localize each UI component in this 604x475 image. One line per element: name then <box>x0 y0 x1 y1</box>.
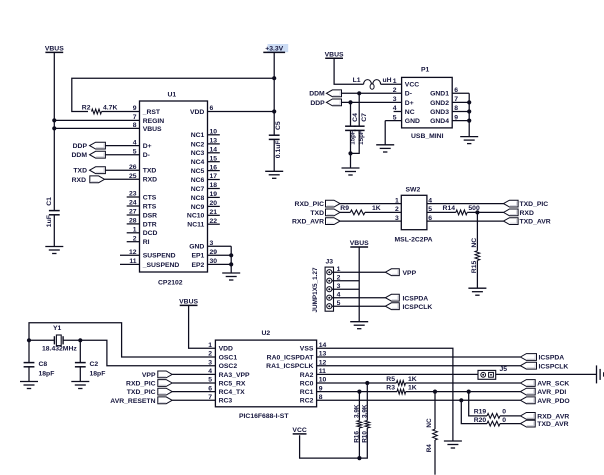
svg-text:25: 25 <box>129 173 137 180</box>
svg-text:TXD: TXD <box>310 210 324 217</box>
port arrow AVR_PDO <box>520 397 535 404</box>
resistor R3 1K <box>397 389 406 394</box>
power flag +3.3V (highlighted) <box>268 44 289 52</box>
junction RC1 / R4 tap <box>433 390 437 394</box>
wire R5 to AVR_SCK <box>406 382 521 384</box>
wire J3 pin1 to VPP <box>332 271 386 273</box>
junction +3.3V / R2 line <box>272 76 276 80</box>
ground below C4/C7 <box>342 168 360 175</box>
svg-text:11: 11 <box>129 258 136 265</box>
wire +3.3V rail down to C5 and ground <box>273 52 275 135</box>
svg-text:18pF: 18pF <box>90 370 106 377</box>
junction D- / C7 tap <box>357 91 361 95</box>
svg-text:26: 26 <box>129 164 137 171</box>
svg-text:DDM: DDM <box>309 91 325 98</box>
svg-text:NC: NC <box>471 238 478 248</box>
port arrow ICSPDA (right) <box>520 354 536 361</box>
svg-text:21: 21 <box>210 209 218 216</box>
svg-text:VSS: VSS <box>300 346 314 353</box>
wire C4/C7 commons to ground <box>350 130 352 168</box>
svg-text:7: 7 <box>208 394 212 401</box>
svg-text:NC10: NC10 <box>187 213 205 220</box>
svg-text:4: 4 <box>208 368 212 375</box>
svg-text:RXD_AVR: RXD_AVR <box>292 219 324 226</box>
svg-text:DDM: DDM <box>72 152 88 159</box>
IC U2 PIC16F688-I-ST body <box>215 340 316 407</box>
svg-text:1: 1 <box>393 78 397 85</box>
junction R16 bottom <box>357 456 361 460</box>
capacitor C1 1uF <box>49 211 60 215</box>
svg-text:U2: U2 <box>262 330 271 337</box>
svg-text:ICSPDA: ICSPDA <box>403 295 429 302</box>
svg-text:R9: R9 <box>340 205 349 212</box>
wire U2 RC2 pin 8 to AVR_PDO <box>317 399 521 401</box>
svg-text:AVR_PDO: AVR_PDO <box>537 398 569 405</box>
port arrow TXD_PIC <box>504 200 519 207</box>
svg-text:0: 0 <box>502 417 506 424</box>
svg-text:GND: GND <box>405 118 420 125</box>
wire VBUS rail down to C1 <box>53 52 55 210</box>
ground below P1 pin 5 <box>376 145 394 152</box>
svg-text:D+: D+ <box>405 100 414 107</box>
svg-text:3: 3 <box>393 96 397 103</box>
svg-text:VBUS: VBUS <box>143 126 162 133</box>
svg-text:C7: C7 <box>361 113 368 122</box>
connector P1 USB_MINI body <box>402 77 453 128</box>
svg-text:ICSPCLK: ICSPCLK <box>403 304 433 311</box>
svg-text:NC8: NC8 <box>191 195 205 202</box>
port arrow ICSPCLK (right) <box>520 362 536 369</box>
svg-text:20: 20 <box>210 200 218 207</box>
svg-text:18pF: 18pF <box>39 370 55 377</box>
svg-text:NC3: NC3 <box>191 150 205 157</box>
junction crystal left <box>27 338 31 342</box>
svg-text:D-: D- <box>405 91 412 98</box>
wire U2 pin 13 to ICSPDA <box>317 356 521 358</box>
wire DDM to P1 D- pin 2 <box>342 92 402 94</box>
wire VPP to U2 pin 4 <box>172 373 215 375</box>
svg-text:1: 1 <box>208 342 212 349</box>
wire J3 pin2 to VBUS <box>332 280 359 282</box>
junction GND3 <box>467 109 471 113</box>
svg-text:RC4_TX: RC4_TX <box>219 389 246 396</box>
svg-text:DSR: DSR <box>143 212 157 219</box>
svg-text:2: 2 <box>133 235 137 242</box>
svg-text:8: 8 <box>133 122 137 129</box>
capacitor C7 15pF <box>358 93 360 126</box>
wire U2 pin 12 to ICSPCLK <box>317 365 521 367</box>
svg-text:2: 2 <box>393 87 397 94</box>
svg-text:TXD_AVR: TXD_AVR <box>537 421 568 428</box>
wire P1 GND pin 5 to ground <box>384 121 386 145</box>
svg-text:NC1: NC1 <box>191 132 205 139</box>
svg-text:8: 8 <box>454 105 458 112</box>
svg-text:GND3: GND3 <box>430 109 449 116</box>
junction EP1 <box>229 253 233 257</box>
port arrow TXD_AVR (bottom) <box>520 420 535 427</box>
svg-text:1uF: 1uF <box>46 215 53 227</box>
svg-text:RTS: RTS <box>143 203 157 210</box>
svg-text:RXD_AVR: RXD_AVR <box>537 414 569 421</box>
wire R3 to AVR_PDI <box>406 391 521 393</box>
svg-text:TXD_AVR: TXD_AVR <box>520 219 551 226</box>
port arrow AVR_PDI <box>520 388 535 395</box>
svg-text:AVR_SCK: AVR_SCK <box>537 381 569 388</box>
svg-text:19: 19 <box>210 191 218 198</box>
junction GND2 <box>467 100 471 104</box>
port arrow ICSPCLK (J3) <box>385 303 399 310</box>
wire VBUS through J3 pins to ground <box>358 247 360 322</box>
svg-text:U1: U1 <box>168 91 177 98</box>
svg-text:6: 6 <box>208 385 212 392</box>
svg-text:CP2102: CP2102 <box>158 279 183 286</box>
svg-text:RXD: RXD <box>520 210 534 217</box>
svg-text:27: 27 <box>129 209 137 216</box>
svg-text:RA3_VPP: RA3_VPP <box>219 372 250 379</box>
junction C4-C7 join <box>348 151 352 155</box>
svg-text:RXD: RXD <box>143 177 157 184</box>
port arrow RXD (right) <box>504 209 519 216</box>
capacitor C8 18pF <box>28 340 30 362</box>
svg-text:GND1: GND1 <box>430 91 449 98</box>
svg-text:L1: L1 <box>353 77 361 84</box>
svg-text:4.7K: 4.7K <box>103 104 117 111</box>
junction RC0 / R10 tap <box>365 381 369 385</box>
svg-text:JUMP1X5_1.27: JUMP1X5_1.27 <box>312 267 319 313</box>
ground below C2 <box>71 382 89 389</box>
svg-text:C8: C8 <box>39 361 48 368</box>
svg-text:1K: 1K <box>408 384 417 391</box>
svg-text:28: 28 <box>129 218 137 225</box>
svg-text:ICSPDA: ICSPDA <box>539 355 565 362</box>
wire SW2 pin 4 to TXD_PIC <box>427 203 504 205</box>
wire J3 pin4 to ICSPDA <box>332 297 386 299</box>
wire J3 pin3 to ground rail <box>332 288 359 290</box>
resistor R9 1K <box>350 210 365 215</box>
port arrow AVR_SCK <box>520 380 535 387</box>
resistor R4 NC <box>434 392 436 430</box>
IC U1 CP2102 body <box>140 101 208 272</box>
svg-text:MSL-2C2PA: MSL-2C2PA <box>395 236 433 243</box>
svg-text:3: 3 <box>210 240 214 247</box>
port arrow ICSPDA (J3) <box>385 294 399 301</box>
resistor R2 4.7K <box>92 109 102 114</box>
svg-text:+3.3V: +3.3V <box>265 46 283 53</box>
svg-text:P1: P1 <box>421 67 430 74</box>
svg-text:J5: J5 <box>500 366 508 373</box>
svg-text:OSC1: OSC1 <box>219 354 238 361</box>
svg-text:TXD: TXD <box>73 168 87 175</box>
svg-text:AVR_RESETN: AVR_RESETN <box>110 398 155 405</box>
svg-text:NC9: NC9 <box>191 204 205 211</box>
svg-text:VBUS: VBUS <box>45 46 64 53</box>
capacitor C2 18pF <box>79 340 81 362</box>
svg-text:9: 9 <box>454 114 458 121</box>
svg-text:GND2: GND2 <box>430 100 449 107</box>
ground below R15 <box>468 288 486 295</box>
wire crystal left node <box>29 339 54 341</box>
svg-text:RXD_PIC: RXD_PIC <box>126 381 156 388</box>
svg-text:NC2: NC2 <box>191 141 205 148</box>
svg-text:R14: R14 <box>443 205 456 212</box>
svg-text:USB_MINI: USB_MINI <box>411 133 444 140</box>
connector J3 JUMP1X5 body <box>325 267 333 311</box>
svg-text:RA2: RA2 <box>300 372 314 379</box>
svg-text:NC: NC <box>405 109 415 116</box>
svg-text:J3: J3 <box>326 259 334 266</box>
svg-text:_RST: _RST <box>142 109 161 116</box>
U1 left pin stubs, numbers and names <box>120 197 140 264</box>
wire DDM to U1 D- pin 5 <box>105 154 139 156</box>
svg-text:0: 0 <box>502 409 506 416</box>
svg-text:1: 1 <box>133 227 137 234</box>
wire +3.3V rail to R2 pullup <box>72 78 274 111</box>
svg-text:14: 14 <box>210 147 218 154</box>
wire U2 RA2 pin 11 through J5 to chassis <box>317 373 597 375</box>
svg-text:C1: C1 <box>46 197 53 206</box>
switch SW2 MSL-2C2PA body <box>401 195 427 229</box>
svg-text:RC0: RC0 <box>300 380 314 387</box>
svg-text:16: 16 <box>210 164 218 171</box>
svg-text:NC: NC <box>426 418 433 428</box>
svg-text:SW2: SW2 <box>406 186 421 193</box>
svg-text:VBUS: VBUS <box>179 299 198 306</box>
wire VBUS to U2 VDD pin 1 <box>189 305 216 348</box>
svg-text:RC3: RC3 <box>219 398 233 405</box>
svg-text:5: 5 <box>393 114 397 121</box>
svg-text:_SUSPEND: _SUSPEND <box>142 262 180 269</box>
wire J3 pin5 to ICSPCLK <box>332 305 386 307</box>
svg-text:23: 23 <box>129 191 137 198</box>
svg-text:C5: C5 <box>275 121 282 130</box>
svg-text:NC5: NC5 <box>191 168 205 175</box>
junction on VBUS rail (REGIN) <box>52 118 56 122</box>
svg-text:4: 4 <box>393 105 397 112</box>
wire crystal right node <box>63 339 80 341</box>
svg-text:13: 13 <box>210 138 218 145</box>
svg-text:RXD: RXD <box>72 177 86 184</box>
wire SW2 pin 6 to TXD_AVR <box>427 220 504 222</box>
svg-text:4: 4 <box>133 139 137 146</box>
wire DDP to U1 D+ pin 4 <box>105 145 139 147</box>
resistor R16 3.9K <box>358 392 360 421</box>
svg-text:22: 22 <box>210 218 218 225</box>
port arrow TXD_AVR (SW2) <box>504 218 519 225</box>
ground below U1 EP pins <box>222 273 240 280</box>
port arrow RXD_AVR <box>520 413 535 420</box>
wire TXD to U1 TXD pin 26 <box>105 169 139 171</box>
svg-text:17: 17 <box>210 173 218 180</box>
junction +3.3V / U1 VDD <box>272 109 276 113</box>
svg-text:12: 12 <box>129 249 137 256</box>
svg-text:R2: R2 <box>82 104 91 111</box>
wire R4 down to edge <box>434 440 436 475</box>
wire C8 to ground <box>28 367 30 382</box>
wire R14 to RXD <box>467 211 503 213</box>
svg-text:24: 24 <box>129 200 137 207</box>
U1 right pin stubs, numbers and names <box>208 112 275 265</box>
resistor R14 500 <box>456 210 467 215</box>
svg-text:EP2: EP2 <box>191 262 204 269</box>
ground below P1 right pins <box>460 137 478 144</box>
svg-text:GND4: GND4 <box>430 118 449 125</box>
junction on VBUS rail (VBUS pin) <box>52 126 56 130</box>
ground below J3 rail <box>350 322 368 329</box>
resistor R15 NC pulldown <box>476 212 478 250</box>
wire C5 to ground <box>273 139 275 171</box>
wire R9 to SW2 pin 2 <box>365 211 401 213</box>
wire crystal left to U2 OSC1 pin 2 <box>29 323 215 357</box>
inductor L1 uH <box>364 80 372 85</box>
wire U1 GND/EP1/EP2 to ground <box>230 246 232 273</box>
svg-text:uH: uH <box>383 77 392 84</box>
wire C1 to ground <box>53 215 55 247</box>
ground below C1 <box>45 247 63 254</box>
junction GND4 <box>467 119 471 123</box>
wire U2 RC1 pin 9 to R3 <box>317 391 397 393</box>
svg-text:5: 5 <box>208 377 212 384</box>
junction RC1 / R16 tap <box>357 390 361 394</box>
resistor R19 0 <box>469 392 487 416</box>
svg-text:18: 18 <box>210 182 218 189</box>
P1 pin names and numbers <box>385 93 469 120</box>
wire R15 to ground <box>476 260 478 288</box>
wire U2 RC0 pin 10 to R5 <box>317 382 397 384</box>
svg-text:R5: R5 <box>386 376 395 383</box>
svg-text:7: 7 <box>133 114 137 121</box>
svg-text:GND: GND <box>189 244 204 251</box>
svg-text:VPP: VPP <box>142 372 156 379</box>
svg-text:15: 15 <box>210 155 218 162</box>
svg-text:TXD: TXD <box>143 168 157 175</box>
svg-text:29: 29 <box>210 249 218 256</box>
wire crystal right to U2 OSC2 pin 3 <box>80 340 215 365</box>
junction D+ / C4 tap <box>348 100 352 104</box>
svg-text:RXD_PIC: RXD_PIC <box>295 201 325 208</box>
svg-text:RC2: RC2 <box>300 398 314 405</box>
svg-text:OSC2: OSC2 <box>219 363 238 370</box>
svg-text:ICSPCLK: ICSPCLK <box>539 363 569 370</box>
svg-text:NC11: NC11 <box>187 222 204 229</box>
wire R16/R10 bottoms to VCC <box>300 428 368 458</box>
wire R19 to RXD_AVR <box>500 415 520 417</box>
ground below C5 <box>265 171 283 178</box>
svg-text:VCC: VCC <box>292 427 306 434</box>
wire U2 VSS pin 14 to ground <box>317 348 453 441</box>
junction AVR_PDI / R19 tap <box>467 390 471 394</box>
svg-text:RA0_ICSPDAT: RA0_ICSPDAT <box>267 354 315 361</box>
svg-text:VCC: VCC <box>405 82 419 89</box>
wire RXD_PIC to SW2 pin 1 <box>340 203 401 205</box>
wire RXD to U1 RXD pin 25 <box>105 178 140 180</box>
svg-text:VBUS: VBUS <box>325 51 344 58</box>
svg-text:RA1_ICSPCLK: RA1_ICSPCLK <box>266 363 313 370</box>
svg-text:R19: R19 <box>474 409 487 416</box>
svg-text:TXD_PIC: TXD_PIC <box>520 201 549 208</box>
svg-text:NC7: NC7 <box>191 186 205 193</box>
ground below C8 <box>20 382 38 389</box>
resistor R20 0 <box>461 400 487 423</box>
svg-text:6: 6 <box>210 105 214 112</box>
svg-text:3.9K: 3.9K <box>361 404 368 418</box>
junction AVR_PDO / R20 tap <box>459 398 463 402</box>
wire VBUS to L1 <box>334 58 364 84</box>
svg-text:PIC16F688-I-ST: PIC16F688-I-ST <box>239 413 289 420</box>
wire P1 GND1-4 bus to ground <box>468 93 470 136</box>
svg-text:3: 3 <box>208 359 212 366</box>
capacitor C4 15pF <box>350 102 352 126</box>
junction EP2 <box>229 262 233 266</box>
resistor R10 3.9K <box>366 383 368 421</box>
svg-text:5: 5 <box>133 148 137 155</box>
svg-text:2: 2 <box>208 351 212 358</box>
svg-text:1K: 1K <box>372 205 381 212</box>
earth symbol at right edge (rotated ground) <box>597 365 604 383</box>
svg-text:SUSPEND: SUSPEND <box>143 253 176 260</box>
svg-text:RC1: RC1 <box>300 389 314 396</box>
junction R14 / R15 <box>475 210 479 214</box>
jumper J5 <box>478 370 496 379</box>
resistor R5 1K <box>397 381 406 386</box>
svg-text:9: 9 <box>133 105 137 112</box>
svg-text:C2: C2 <box>90 361 99 368</box>
svg-text:30: 30 <box>210 258 218 265</box>
svg-text:R4: R4 <box>426 444 433 453</box>
port arrow VPP (J3) <box>385 269 399 276</box>
svg-text:DTR: DTR <box>143 221 157 228</box>
wire TXD_PIC to U2 pin 6 <box>172 391 215 393</box>
wire TXD to R9 <box>340 211 350 213</box>
svg-text:7: 7 <box>454 96 458 103</box>
wire R20 to TXD_AVR <box>500 423 520 425</box>
svg-text:AVR_PDI: AVR_PDI <box>537 389 566 396</box>
capacitor C5 0.1uF <box>269 135 280 139</box>
svg-text:D-: D- <box>143 152 150 159</box>
wire C2 to ground <box>79 367 81 382</box>
junction crystal right <box>78 338 82 342</box>
svg-text:DDP: DDP <box>310 100 325 107</box>
wire RXD_PIC to U2 pin 5 <box>172 382 215 384</box>
svg-text:R3: R3 <box>386 384 395 391</box>
wire VBUS to U1 VBUS pin 8 <box>54 127 139 129</box>
svg-text:NC6: NC6 <box>191 177 205 184</box>
svg-text:NC4: NC4 <box>191 159 205 166</box>
wire R2 to U1 _RST pin 9 <box>102 111 140 113</box>
svg-text:1K: 1K <box>408 376 417 383</box>
svg-text:VPP: VPP <box>403 270 417 277</box>
svg-text:DCD: DCD <box>143 230 158 237</box>
svg-text:R20: R20 <box>474 417 487 424</box>
wire RXD_AVR to SW2 pin 3 <box>340 220 401 222</box>
svg-text:18.432MHz: 18.432MHz <box>42 345 77 352</box>
svg-text:VDD: VDD <box>219 346 233 353</box>
wire VBUS to U1 REGIN pin 7 <box>54 119 139 121</box>
svg-text:10: 10 <box>210 129 218 136</box>
svg-text:3.9K: 3.9K <box>353 404 360 418</box>
ground below VSS <box>444 441 462 448</box>
svg-text:VBUS: VBUS <box>350 240 369 247</box>
svg-text:VDD: VDD <box>190 109 204 116</box>
wire SW2 pin 5 to R14 <box>427 211 456 213</box>
J3 pin pads <box>327 270 332 275</box>
svg-text:0.1uF: 0.1uF <box>275 140 282 158</box>
wire DDP to P1 D+ pin 3 <box>342 101 402 103</box>
svg-text:TXD_PIC: TXD_PIC <box>127 389 156 396</box>
wire AVR_RESETN to U2 pin 7 <box>172 399 215 401</box>
svg-text:Y1: Y1 <box>53 325 62 332</box>
svg-text:CTS: CTS <box>143 194 157 201</box>
svg-text:C4: C4 <box>352 113 359 122</box>
